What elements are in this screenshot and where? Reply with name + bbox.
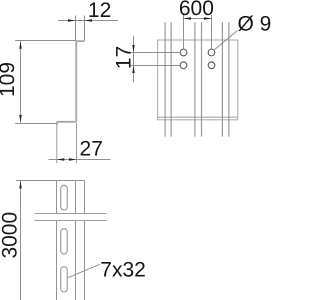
arrow 17 bottom bbox=[132, 66, 134, 74]
dimension line 109 bbox=[20, 41, 22, 122]
svg-text:27: 27 bbox=[80, 138, 103, 161]
slot 3 bbox=[61, 267, 68, 292]
svg-text:600: 600 bbox=[179, 0, 214, 20]
dimension line 3000 bbox=[20, 181, 22, 300]
top view: mounting plate bbox=[158, 40, 238, 120]
rail 2 left edge bbox=[194, 22, 196, 136]
plate bottom fold line bbox=[158, 116, 238, 118]
hole B1 bbox=[208, 49, 215, 56]
dimension line 27 bbox=[49, 159, 111, 161]
arrow 3000 top bbox=[19, 181, 21, 189]
extension line 12 right bbox=[84, 16, 86, 41]
arrow 600 right bbox=[204, 17, 212, 19]
svg-text:17: 17 bbox=[113, 46, 136, 69]
extension line 27 left bbox=[56, 123, 58, 163]
rail right edge upper bbox=[84, 181, 86, 214]
arrow 109 bottom bbox=[19, 115, 21, 123]
hole A2 bbox=[180, 62, 187, 69]
rail 3 right edge bbox=[228, 22, 230, 136]
svg-text:Ø 9: Ø 9 bbox=[238, 13, 272, 36]
side view: Z-profile (top flange 12, web 109, bottom flange 27) bbox=[57, 41, 85, 124]
extension line 12 left bbox=[75, 16, 77, 41]
svg-text:12: 12 bbox=[88, 0, 111, 22]
extension line 600 left bbox=[183, 15, 185, 49]
leader line 17 bottom bbox=[130, 65, 180, 67]
arrow 17 top bbox=[132, 45, 134, 53]
extension line 600 right bbox=[211, 15, 213, 49]
rail fold line upper bbox=[75, 181, 77, 214]
arrow 12 left bbox=[68, 19, 76, 21]
rail left edge upper bbox=[56, 181, 58, 214]
break line lower bbox=[34, 220, 106, 222]
rail 1 left edge bbox=[164, 22, 166, 136]
hole A1 bbox=[180, 49, 187, 56]
rail right edge lower bbox=[84, 221, 86, 300]
leader line diameter 9 bbox=[214, 31, 237, 51]
extension line 109 bottom bbox=[15, 123, 56, 125]
arrow 12 right bbox=[85, 19, 93, 21]
dimension line 600 bbox=[183, 18, 213, 20]
rail left edge lower bbox=[56, 221, 58, 300]
slot 1 bbox=[61, 185, 68, 210]
arrow 27 right bbox=[69, 158, 77, 160]
arrow 600 left bbox=[184, 17, 192, 19]
rail 2 right edge bbox=[201, 22, 203, 136]
extension line 27 right bbox=[76, 123, 78, 163]
rail fold line lower bbox=[75, 221, 77, 300]
rail 3 left edge bbox=[221, 22, 223, 136]
rail 1 right edge bbox=[170, 22, 172, 136]
arrow 109 top bbox=[19, 41, 21, 49]
dimension line 12 bbox=[58, 20, 118, 22]
dimension line 17 bbox=[133, 36, 135, 82]
svg-text:109: 109 bbox=[0, 62, 19, 97]
arrow 27 left bbox=[57, 158, 65, 160]
svg-text:3000: 3000 bbox=[0, 212, 21, 259]
leader line 7x32 bbox=[68, 264, 100, 277]
svg-text:7x32: 7x32 bbox=[100, 258, 146, 281]
extension line 109 top bbox=[15, 40, 76, 42]
hole B2 bbox=[208, 62, 215, 69]
slot 2 bbox=[61, 229, 68, 254]
leader line 17 top bbox=[130, 52, 180, 54]
front view: rail top edge + 3000 extension bbox=[16, 180, 85, 182]
break line upper bbox=[34, 213, 106, 215]
